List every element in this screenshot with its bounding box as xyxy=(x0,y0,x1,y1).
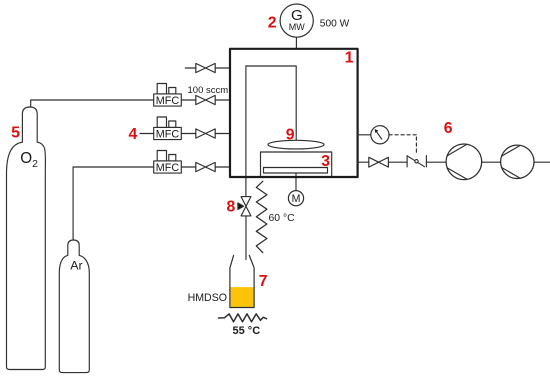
pressure gauge xyxy=(371,126,389,144)
svg-text:3: 3 xyxy=(321,153,330,170)
wire pump1 to pump2 xyxy=(482,161,501,163)
reactor chamber (1) xyxy=(230,49,358,177)
HMDSO liquid xyxy=(231,287,254,307)
valve 8 (vertical) xyxy=(241,197,251,216)
quartz tube xyxy=(246,66,296,141)
heater zigzag 55C xyxy=(219,314,267,322)
MFC 1 xyxy=(154,84,182,107)
exhaust valve xyxy=(369,157,389,167)
valve after MFC2 xyxy=(196,129,215,138)
svg-text:55 °C: 55 °C xyxy=(233,325,261,337)
wire chamber to valve xyxy=(358,161,369,163)
motor shaft line xyxy=(295,173,297,191)
feed line below valve 8 xyxy=(245,216,247,260)
pump 1 (6) xyxy=(446,144,482,180)
valve after MFC1 xyxy=(196,95,215,104)
vent valve xyxy=(196,63,215,72)
heated line zigzag 60C xyxy=(256,181,267,252)
wire valve2 to chamber xyxy=(215,133,230,135)
wire MFC2 to valve xyxy=(181,133,196,135)
vent wire left xyxy=(185,67,196,69)
svg-text:4: 4 xyxy=(129,126,138,143)
MFC 2 xyxy=(154,117,182,140)
Ar gas cylinder xyxy=(59,240,89,373)
microwave antenna line xyxy=(295,37,297,49)
wire valve to butterfly xyxy=(388,161,407,163)
svg-text:Ar: Ar xyxy=(70,259,82,273)
O2 gas cylinder (5) xyxy=(7,107,46,370)
wire chamber to gauge xyxy=(358,134,371,136)
svg-text:5: 5 xyxy=(11,125,20,142)
butterfly throttle valve xyxy=(406,156,408,167)
svg-text:60 °C: 60 °C xyxy=(269,213,296,224)
valve 8 actuator xyxy=(238,203,244,210)
plasma ellipse (9) xyxy=(268,140,324,149)
motor M xyxy=(288,191,303,206)
wire valve1 to chamber xyxy=(215,99,230,101)
svg-text:2: 2 xyxy=(268,14,277,31)
svg-text:MFC: MFC xyxy=(156,128,180,140)
svg-text:8: 8 xyxy=(227,199,236,216)
svg-text:7: 7 xyxy=(259,273,268,290)
gauge needle xyxy=(376,130,382,139)
MFC 3 xyxy=(154,151,182,174)
valve after MFC3 xyxy=(196,162,215,171)
HMDSO feed line through chamber xyxy=(245,66,247,197)
pump 2 xyxy=(501,145,534,178)
svg-text:MFC: MFC xyxy=(156,95,180,107)
svg-text:MW: MW xyxy=(289,22,305,32)
wire stub row 2 xyxy=(140,133,154,135)
wire MFC1 to valve xyxy=(181,99,196,101)
svg-text:MFC: MFC xyxy=(156,162,180,174)
vent wire to chamber xyxy=(215,67,230,69)
svg-text:HMDSO: HMDSO xyxy=(188,292,227,304)
wire valve3 to chamber xyxy=(215,166,230,168)
substrate plate xyxy=(264,168,328,174)
generator circle G MW (2) xyxy=(280,4,313,37)
wire butterfly to pump1 xyxy=(426,161,446,163)
svg-text:M: M xyxy=(292,193,301,205)
dashed control line xyxy=(389,134,416,136)
svg-text:100 sccm: 100 sccm xyxy=(188,85,229,96)
wire MFC3 to valve xyxy=(181,166,196,168)
svg-text:9: 9 xyxy=(286,127,295,144)
wire Ar to MFC3 xyxy=(73,167,154,240)
substrate stage box (3) xyxy=(261,152,332,177)
svg-text:1: 1 xyxy=(345,50,354,67)
wire O2 to MFC1 xyxy=(31,100,154,107)
HMDSO bubbler bottle (7) xyxy=(230,255,254,307)
svg-text:500 W: 500 W xyxy=(320,19,350,30)
wire pump2 out xyxy=(534,161,550,163)
svg-text:6: 6 xyxy=(444,120,453,137)
